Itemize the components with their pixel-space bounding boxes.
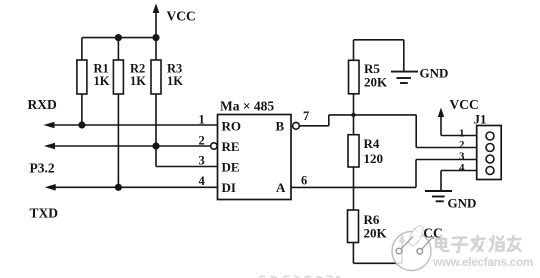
svg-text:1: 1: [459, 128, 465, 140]
node: junction R2/VCC rail: [115, 34, 122, 41]
svg-text:7: 7: [303, 109, 309, 123]
node: junction R5-R4 column / B net: [351, 113, 355, 117]
svg-text:J1: J1: [474, 112, 487, 127]
svg-text:RXD: RXD: [28, 97, 57, 112]
wire: top VCC rail: [82, 37, 156, 39]
svg-text:Ma × 485: Ma × 485: [220, 99, 274, 114]
wire: RXD to RO pin 1: [44, 122, 218, 129]
resistor R1 1K: [77, 38, 110, 125]
wire: R6 bottom to VCC arrow: [353, 241, 402, 264]
svg-text:RO: RO: [222, 119, 242, 134]
power VCC (J1 pin 1): [438, 97, 479, 136]
wire: P3.2 to RE pin 2: [44, 143, 211, 150]
svg-text:1K: 1K: [94, 74, 110, 88]
svg-text:www.elecfans.com: www.elecfans.com: [432, 256, 533, 269]
svg-text:GND: GND: [448, 196, 477, 211]
IC U1 Ma x 485: [218, 99, 292, 200]
pin 2 RE bubble: [211, 143, 217, 149]
wire: TXD to DI pin 4: [45, 184, 218, 191]
pin 7 B bubble: [293, 122, 300, 129]
resistor R5 20K: [349, 40, 389, 135]
svg-text:20K: 20K: [364, 75, 388, 90]
wire: DE link to RE net: [156, 146, 218, 167]
svg-text:R4: R4: [364, 136, 380, 151]
svg-text:DI: DI: [222, 180, 236, 195]
svg-text:RE: RE: [222, 139, 240, 154]
resistor R6 20K: [348, 210, 388, 263]
svg-text:VCC: VCC: [167, 9, 196, 24]
ground (bottom, near J1): [425, 191, 476, 211]
svg-text:120: 120: [364, 151, 384, 166]
svg-text:1K: 1K: [167, 74, 183, 88]
svg-text:1K: 1K: [130, 74, 146, 88]
wire: A net (pin 6) to J1 pin 3: [291, 160, 486, 188]
power VCC (top left): [153, 4, 196, 38]
wire: R5 top to GND: [354, 40, 404, 71]
svg-text:4: 4: [199, 174, 206, 188]
svg-text:3: 3: [459, 151, 465, 163]
svg-text:2: 2: [459, 139, 465, 151]
svg-text:A: A: [276, 180, 286, 195]
resistor R4 120: [348, 135, 383, 210]
node: junction R3/VCC rail: [152, 34, 159, 41]
watermark logo elecfans: [392, 226, 435, 271]
svg-text:6: 6: [301, 174, 307, 188]
svg-text:1: 1: [199, 113, 205, 127]
svg-text:VCC: VCC: [450, 97, 479, 112]
svg-text:2: 2: [199, 134, 205, 148]
resistor R3 1K: [151, 38, 183, 146]
svg-text:P3.2: P3.2: [30, 161, 55, 176]
wire: B net (pin 7) to J1 pin 2: [299, 115, 486, 148]
svg-text:B: B: [276, 119, 285, 134]
svg-text:20K: 20K: [364, 226, 388, 241]
wire: GND to J1 pin 4: [441, 171, 486, 191]
node: junction R3/RE wire: [152, 142, 159, 149]
svg-text:3: 3: [199, 154, 205, 168]
wire: VCC to J1 pin 1: [441, 135, 486, 137]
watermark text (chinese glyph shapes): [436, 236, 521, 252]
svg-text:GND: GND: [420, 66, 449, 81]
connector J1: [474, 112, 502, 180]
resistor R2 1K: [113, 38, 146, 188]
svg-text:4: 4: [459, 162, 465, 174]
svg-text:TXD: TXD: [30, 206, 59, 221]
caption remnant (cropped text at bottom edge): [259, 276, 340, 278]
power VCC (bottom, near R6): [399, 226, 443, 243]
ground (top, near R5): [391, 66, 448, 84]
node: junction R1/RXD wire: [78, 121, 85, 128]
svg-text:DE: DE: [222, 160, 240, 175]
node: junction R2/TXD wire: [115, 184, 122, 191]
